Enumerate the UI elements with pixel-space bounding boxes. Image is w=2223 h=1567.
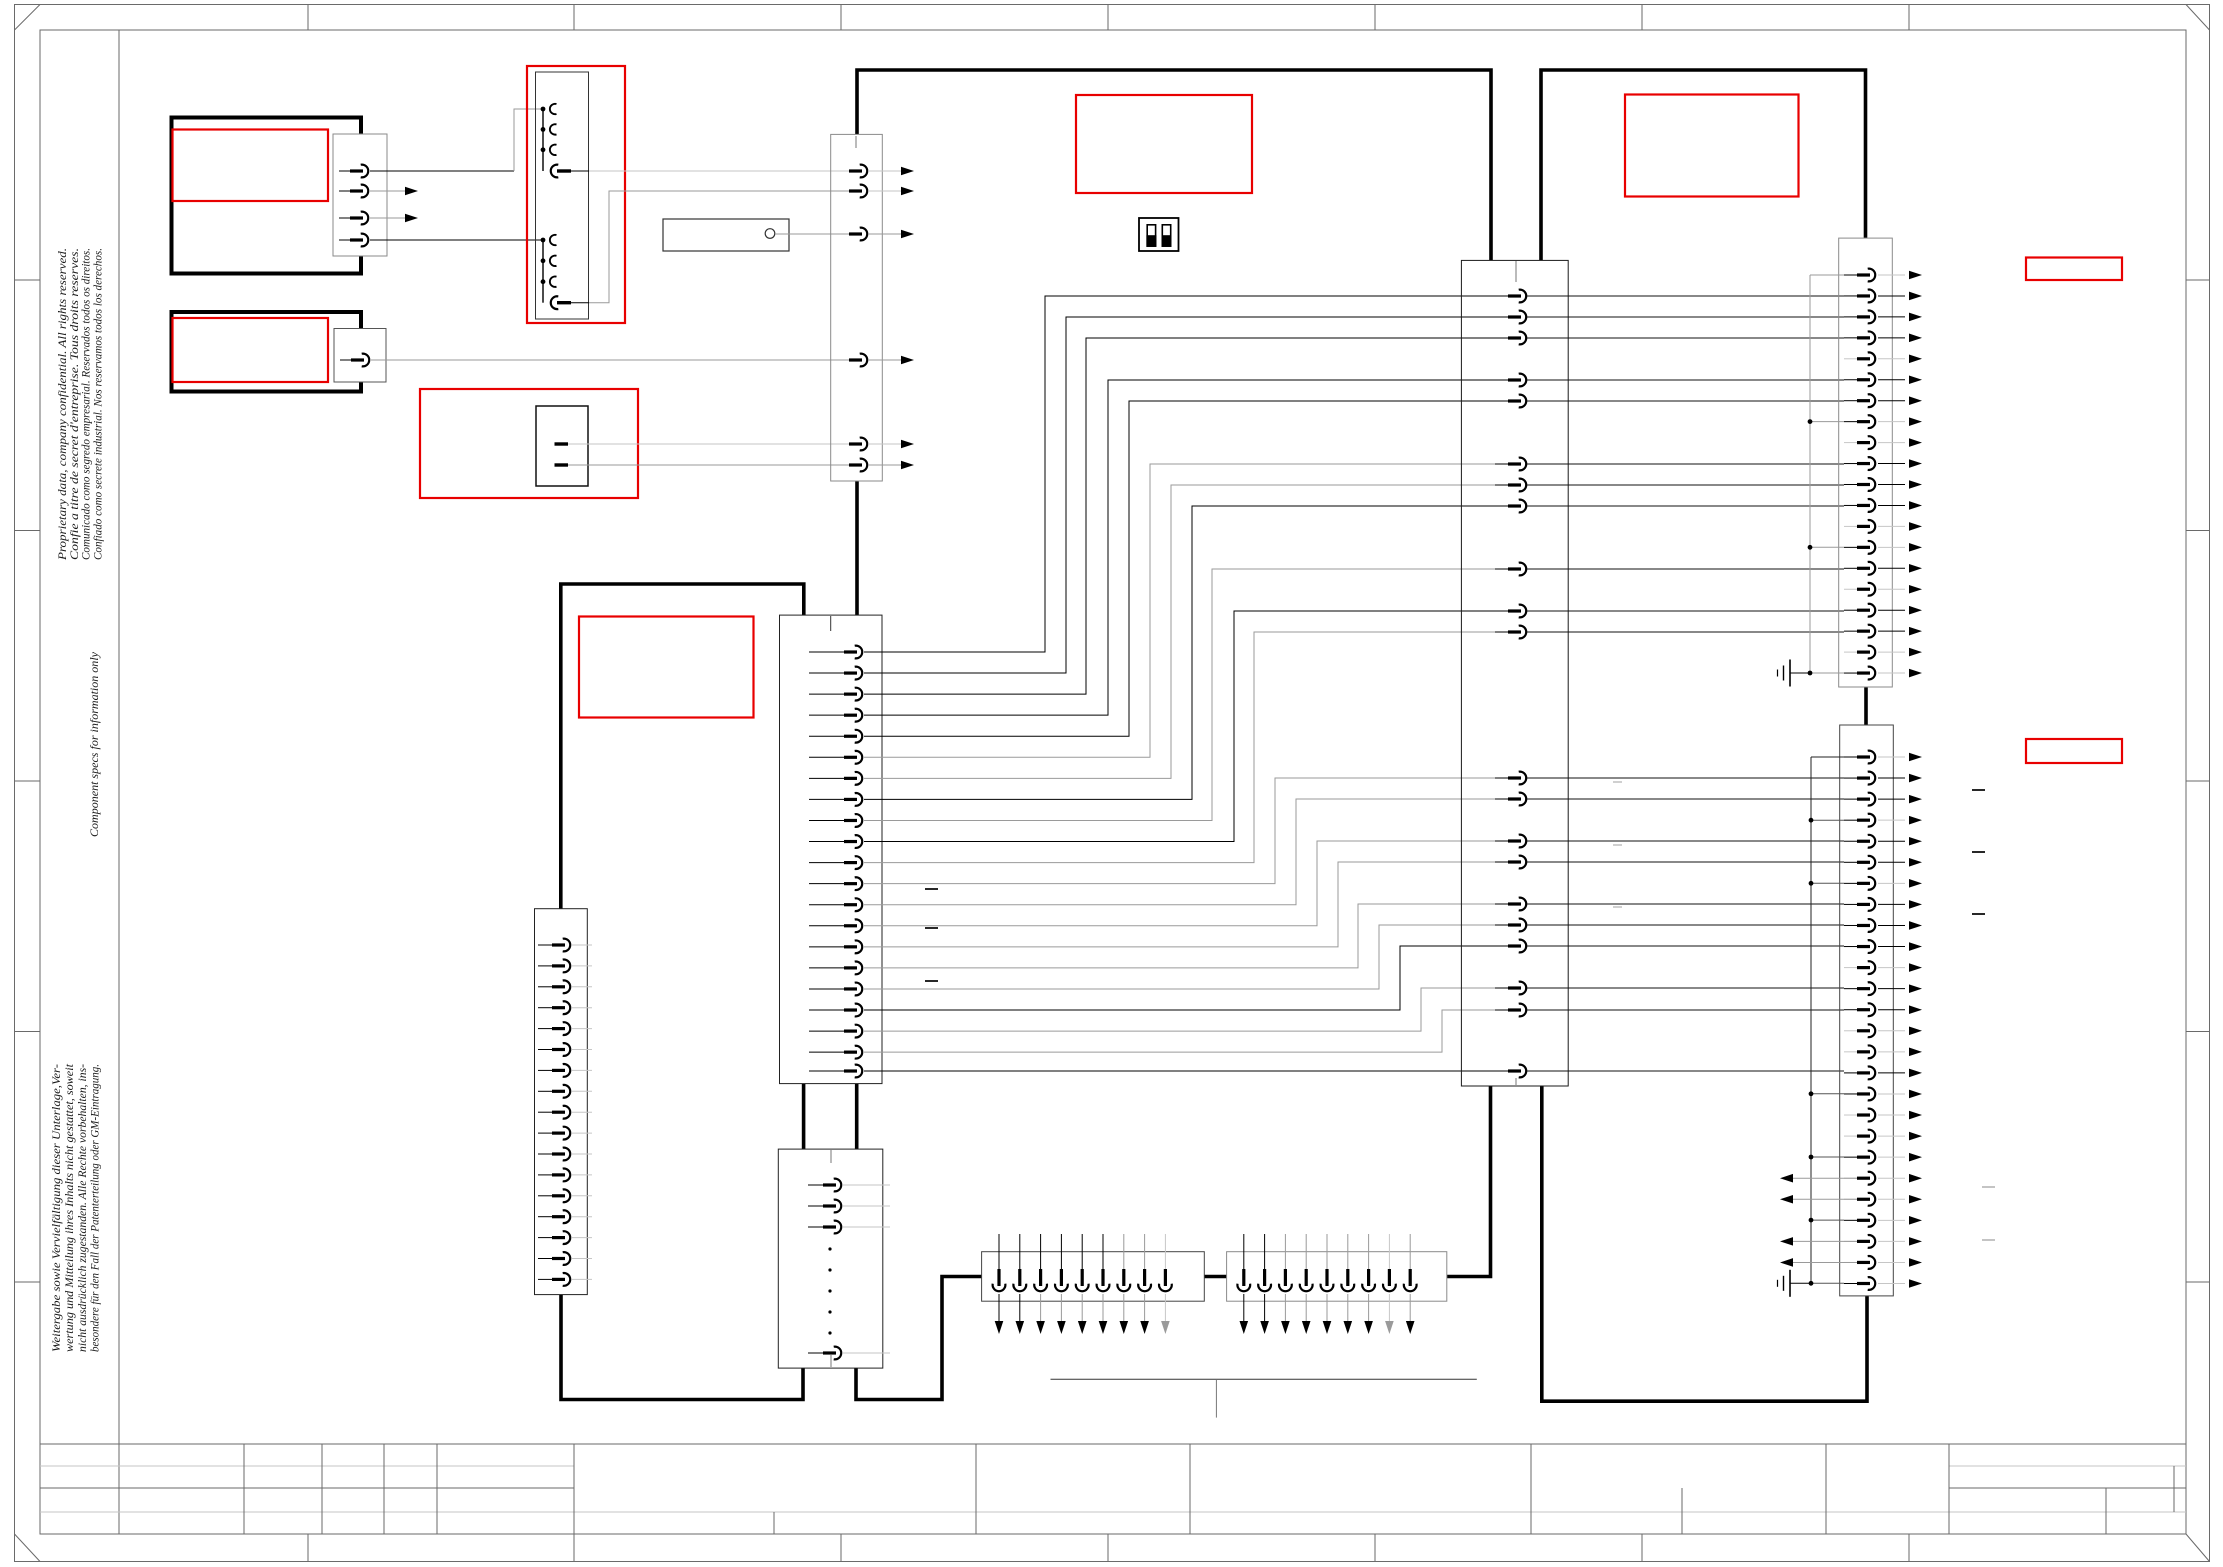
- arrow X7:6: [1909, 858, 1922, 867]
- wire X3:6 to X6: [1527, 463, 1844, 465]
- pin X3:5: [1495, 400, 1508, 402]
- pin X5:n: [808, 1352, 823, 1354]
- label box E1: [173, 130, 329, 202]
- wire E1:1 to fuse F1 input: [370, 170, 514, 172]
- label box harness H2 (right): [1625, 95, 1799, 197]
- connector X5 ellipsis dots: [828, 1247, 831, 1250]
- pin X6:9: [1844, 442, 1857, 444]
- arrow X7:26: [1909, 1279, 1922, 1288]
- wire X7:17 out: [1878, 1093, 1905, 1095]
- wire X3:1 to X6: [1527, 295, 1844, 297]
- fuse F1 contact chain: [542, 109, 544, 171]
- arrow X9:1: [1240, 1321, 1249, 1334]
- wire X6:11 out: [1878, 484, 1905, 486]
- label box harness H1 (center): [1076, 95, 1252, 193]
- svg-text:Weitergabe sowie Vervielfält: Weitergabe sowie Vervielfältigung dieser…: [51, 1064, 63, 1352]
- pin X7:7: [1844, 882, 1857, 884]
- pin X1:5: [836, 443, 849, 445]
- arrow X7:3: [1909, 795, 1922, 804]
- pin X6:14: [1844, 546, 1857, 548]
- arrow X6:3: [1909, 313, 1922, 322]
- pin X4:12: [538, 1174, 552, 1176]
- pin X4:11: [538, 1153, 552, 1155]
- wire X3:15 to X7: [1527, 861, 1844, 863]
- wire X3:5 to X6: [1527, 400, 1844, 402]
- title block: [40, 1443, 2186, 1445]
- fuse F2 output contact: [551, 296, 559, 309]
- arrow X7:13: [1909, 1005, 1922, 1014]
- pin X4:6: [538, 1049, 552, 1051]
- pin X6:20: [1844, 672, 1857, 674]
- pin X3:16: [1495, 903, 1508, 905]
- wire X7:22 feed-back: [1793, 1198, 1857, 1200]
- wire X2:17 to X3:17: [864, 925, 1508, 989]
- wire harness bundle: connector X1 bottom to connector X2 top: [855, 481, 859, 615]
- pin X2:3: [809, 693, 844, 695]
- arrow X6:4: [1909, 334, 1922, 343]
- pin X3:12: [1495, 777, 1508, 779]
- pin X9:9: [1409, 1234, 1411, 1269]
- pin X8:9: [1164, 1234, 1166, 1269]
- pin X2:7: [809, 777, 844, 779]
- wire fuse F1 to connector X1 pin 1: [589, 170, 836, 172]
- DIP switch block S2: [1139, 218, 1179, 251]
- wire X2:5 to X3:5: [864, 401, 1508, 736]
- wire X6:5 out: [1878, 358, 1905, 360]
- arrow E1:2: [405, 187, 418, 196]
- pin X3:7: [1495, 484, 1508, 486]
- wire X3:20 to X7: [1527, 1009, 1844, 1011]
- arrow X7:25 left: [1780, 1258, 1793, 1267]
- connector X5 index tick bottom: [830, 1355, 832, 1367]
- label box W1 (right margin): [2026, 258, 2122, 281]
- pin X3:17: [1495, 924, 1508, 926]
- arrow X9:6: [1344, 1321, 1353, 1334]
- wire X6:17 out: [1878, 609, 1905, 611]
- svg-text:besondere für den Fall der Pat: besondere für den Fall der Patenterteilu…: [90, 1064, 102, 1352]
- frame reference ticks top edge: [307, 5, 309, 31]
- arrow X7:16: [1909, 1069, 1922, 1078]
- arrow X7:21 left: [1780, 1174, 1793, 1183]
- wire harness bundle: connector X4 bottom loop to connector X5 bottom: [561, 1295, 803, 1400]
- wire X7:2 out: [1878, 777, 1905, 779]
- left notice margin divider: [118, 30, 120, 1534]
- ground G2 at connector X7: [1789, 1270, 1791, 1297]
- wire E1:1 riser to fuse F1: [514, 109, 543, 171]
- pin X2:17: [809, 988, 844, 990]
- component box E1 (sensor unit): [172, 118, 362, 274]
- label box E2: [173, 318, 329, 382]
- pin X4:2: [538, 965, 552, 967]
- arrow X7:23: [1909, 1216, 1922, 1225]
- faded wire label dashes (between X3 and X7): [1613, 781, 1622, 783]
- arrow X8:6: [1099, 1321, 1108, 1334]
- arrow X7:20: [1909, 1153, 1922, 1162]
- arrow X8:2: [1016, 1321, 1025, 1334]
- arrow X6:6: [1909, 375, 1922, 384]
- wire X6:4 out: [1878, 337, 1905, 339]
- wire X3:14 to X7: [1527, 840, 1844, 842]
- pin X9:3: [1284, 1234, 1286, 1269]
- pin X6:6: [1844, 379, 1857, 381]
- arrow X9:9: [1406, 1321, 1415, 1334]
- wire X3:11 to X6: [1527, 631, 1844, 633]
- switch S1 body: [536, 406, 588, 486]
- wire X1:6 out: [868, 464, 901, 466]
- arrow X7:4: [1909, 816, 1922, 825]
- pin X1:1: [836, 170, 849, 172]
- pin X4:9: [538, 1111, 552, 1113]
- wire X6:16 out: [1878, 588, 1905, 590]
- switch S1 contact 2: [555, 463, 569, 466]
- arrow X7:12: [1909, 984, 1922, 993]
- pin X9:4: [1305, 1234, 1307, 1269]
- connector X5 index tick top: [830, 1150, 832, 1163]
- wire harness bundle: connector X2 bottom left to connector X5 top: [802, 1084, 806, 1150]
- pin X7:8: [1844, 903, 1857, 905]
- pin X2:13: [809, 904, 844, 906]
- pin X7:14: [1844, 1030, 1857, 1032]
- wire harness bundle: connector X8 right to connector X9 left: [1204, 1275, 1226, 1279]
- pin X9:7: [1368, 1234, 1370, 1269]
- wire X2:21 to X3:21: [864, 1070, 1508, 1072]
- pin X4:3: [538, 986, 552, 988]
- arrow X6:19: [1909, 648, 1922, 657]
- pin X4:15: [538, 1237, 552, 1239]
- pin X7:3: [1844, 798, 1857, 800]
- wire X1:4 out: [868, 359, 901, 361]
- pin X2:20: [809, 1051, 844, 1053]
- wire X7:11 out: [1878, 967, 1905, 969]
- connector X8 strip: [982, 1252, 1205, 1302]
- wire X7:10 out: [1878, 946, 1905, 948]
- wire X2:15 to X3:15: [864, 862, 1508, 947]
- pin X6:1: [1844, 274, 1857, 276]
- connector X6 strip: [1839, 238, 1893, 687]
- pin E1:3: [339, 217, 350, 219]
- pin X3:13: [1495, 798, 1508, 800]
- pin X6:7: [1844, 400, 1857, 402]
- pin X4:14: [538, 1216, 552, 1218]
- pin X3:2: [1495, 316, 1508, 318]
- svg-text:Confiado como secrete industri: Confiado como secrete industrial. Nos re…: [92, 248, 104, 560]
- pin X2:8: [809, 798, 844, 800]
- pin X8:5: [1081, 1234, 1083, 1269]
- wire harness bundle: generator box top edge to connector X1 top: [857, 70, 1491, 260]
- wire X7:15 out: [1878, 1051, 1905, 1053]
- arrow X7:24 left: [1780, 1237, 1793, 1246]
- pin X7:13: [1844, 1009, 1857, 1011]
- connector X3 index tick bottom: [1515, 1078, 1517, 1085]
- wire X3:18 to X7: [1527, 945, 1844, 947]
- pin X2:1: [809, 651, 844, 653]
- ground bus wire at X6: [1809, 275, 1811, 673]
- arrow X6:10: [1909, 459, 1922, 468]
- wire X6:2 out: [1878, 295, 1905, 297]
- wire X2:4 to X3:4: [864, 380, 1508, 715]
- pin X7:23: [1844, 1219, 1857, 1221]
- pin X6:16: [1844, 588, 1857, 590]
- arrow X6:16: [1909, 585, 1922, 594]
- wire X1:5 out: [868, 443, 901, 445]
- wire X7:18 out: [1878, 1114, 1905, 1116]
- pin X5:2: [808, 1205, 823, 1207]
- arrow X1:1: [901, 167, 914, 176]
- frame reference ticks right edge: [2186, 279, 2210, 281]
- wire X2:3 to X3:3: [864, 338, 1508, 694]
- pin X7:21: [1844, 1177, 1857, 1179]
- wire X7:8 out: [1878, 903, 1905, 905]
- frame corner diagonal top-right: [2186, 5, 2210, 31]
- wire X6:10 out: [1878, 463, 1905, 465]
- fuse F2 contact chain: [542, 240, 544, 303]
- arrow X7:19: [1909, 1132, 1922, 1141]
- pin X7:15: [1844, 1051, 1857, 1053]
- arrow X7:22 left: [1780, 1195, 1793, 1204]
- wire X3:19 to X7: [1527, 987, 1844, 989]
- wire X2:8 to X3:8: [864, 506, 1508, 799]
- arrow X9:2: [1260, 1321, 1269, 1334]
- arrow X6:2: [1909, 292, 1922, 301]
- label box control unit A1: [579, 617, 754, 718]
- wire X1:2 out: [868, 190, 901, 192]
- wire X2:20 to X3:20: [864, 1010, 1508, 1052]
- pin X7:16: [1844, 1072, 1857, 1074]
- pin X7:17: [1844, 1093, 1857, 1095]
- pin X7:25: [1844, 1261, 1857, 1263]
- wire label dash marks (right group): [1972, 789, 1985, 791]
- arrow X7:25: [1909, 1258, 1922, 1267]
- pin E1:1: [339, 170, 350, 172]
- arrow X6:15: [1909, 564, 1922, 573]
- wire X6:6 out: [1878, 379, 1905, 381]
- wire X6:19 out: [1878, 651, 1905, 653]
- pin X6:8: [1844, 421, 1857, 423]
- wire X2:10 to X3:10: [864, 611, 1508, 842]
- pin X4:10: [538, 1132, 552, 1134]
- arrow X7:7: [1909, 879, 1922, 888]
- pin X2:21: [809, 1070, 844, 1072]
- pin X9:2: [1264, 1234, 1266, 1269]
- arrow X7:2: [1909, 774, 1922, 783]
- pin X3:9: [1495, 568, 1508, 570]
- arrow X6:11: [1909, 480, 1922, 489]
- pin X3:11: [1495, 631, 1508, 633]
- pin X8:7: [1123, 1234, 1125, 1269]
- pin X3:20: [1495, 1009, 1508, 1011]
- pin X2:4: [809, 714, 844, 716]
- pin X4:16: [538, 1258, 552, 1260]
- wire X2:7 to X3:7: [864, 485, 1508, 778]
- pin X4:1: [538, 944, 552, 946]
- pin X2:16: [809, 967, 844, 969]
- pin X4:17: [538, 1278, 552, 1280]
- pin X1:2: [836, 190, 849, 192]
- wire X2:19 to X3:19: [864, 988, 1508, 1031]
- pin X8:3: [1040, 1234, 1042, 1269]
- pin X3:3: [1495, 337, 1508, 339]
- connector X5 strip: [778, 1149, 883, 1368]
- connector X2 strip: [780, 615, 883, 1084]
- pin X7:18: [1844, 1114, 1857, 1116]
- arrow X7:1: [1909, 753, 1922, 762]
- pin X6:11: [1844, 484, 1857, 486]
- arrow X7:17: [1909, 1090, 1922, 1099]
- pin X2:15: [809, 946, 844, 948]
- pin E2:1: [340, 359, 351, 361]
- wire S1:1 to connector X1 pin 5: [568, 443, 836, 445]
- arrow X6:7: [1909, 396, 1922, 405]
- pin X6:12: [1844, 504, 1857, 506]
- pin X1:3: [836, 233, 849, 235]
- pin X2:6: [809, 756, 844, 758]
- pin X6:4: [1844, 337, 1857, 339]
- wire X7:7 out: [1878, 882, 1905, 884]
- pin X7:24: [1844, 1240, 1857, 1242]
- arrow X6:20: [1909, 669, 1922, 678]
- wire X3:9 to X6: [1527, 568, 1844, 570]
- svg-text:nicht ausdrücklich zugestanden: nicht ausdrücklich zugestanden. Alle Rec…: [77, 1064, 89, 1352]
- wire X2:1 to X3:1: [864, 296, 1508, 652]
- pin X2:10: [809, 841, 844, 843]
- pin X8:8: [1144, 1234, 1146, 1269]
- wire X2:11 to X3:11: [864, 632, 1508, 863]
- arrow X7:15: [1909, 1048, 1922, 1057]
- pin E1:2: [339, 190, 350, 192]
- wire X3:12 to X7: [1527, 777, 1844, 779]
- wire X7:26 out: [1878, 1283, 1905, 1285]
- pin X7:9: [1844, 924, 1857, 926]
- arrow X8:5: [1078, 1321, 1087, 1334]
- frame corner diagonal top-left: [15, 5, 41, 31]
- fuse box inner body: [536, 72, 589, 319]
- wire X6:13 out: [1878, 525, 1905, 527]
- pin X3:15: [1495, 861, 1508, 863]
- arrow X6:14: [1909, 543, 1922, 552]
- wire X1:1 out: [868, 170, 901, 172]
- arrow X1:3: [901, 230, 914, 239]
- fuse F1 output contact: [551, 165, 559, 178]
- connector X2 index tick: [830, 616, 832, 631]
- pin X3:19: [1495, 987, 1508, 989]
- pin X8:1: [998, 1234, 1000, 1269]
- wire X2:14 to X3:14: [864, 841, 1508, 926]
- pin X7:1: [1844, 756, 1857, 758]
- frame reference ticks bottom edge: [307, 1534, 309, 1562]
- arrow X6:1: [1909, 271, 1922, 280]
- wire X6:3 out: [1878, 316, 1905, 318]
- pin X4:7: [538, 1069, 552, 1071]
- pin X7:22: [1844, 1198, 1857, 1200]
- wire X6:14 out: [1878, 546, 1905, 548]
- wire X7:20 out: [1878, 1156, 1905, 1158]
- pin X6:19: [1844, 651, 1857, 653]
- wire harness bundle: connector X5 bottom to connector X8 left: [856, 1277, 982, 1400]
- arrow X7:22: [1909, 1195, 1922, 1204]
- pin X6:5: [1844, 358, 1857, 360]
- arrow X7:10: [1909, 942, 1922, 951]
- arrow X6:8: [1909, 417, 1922, 426]
- wire harness bundle: connector X2 bottom right to connector X5 top: [855, 1084, 859, 1150]
- wire X6:9 out: [1878, 442, 1905, 444]
- wire relay K1 to connector X1 pin 3: [775, 233, 836, 235]
- pin X4:13: [538, 1195, 552, 1197]
- pin X3:4: [1495, 379, 1508, 381]
- wire X7:1 out: [1878, 756, 1905, 758]
- wire X6:15 out: [1878, 567, 1905, 569]
- pin X6:10: [1844, 463, 1857, 465]
- pin X7:10: [1844, 946, 1857, 948]
- arrow X8:4: [1057, 1321, 1066, 1334]
- arrow X7:5: [1909, 837, 1922, 846]
- arrow X8:7: [1120, 1321, 1129, 1334]
- arrow X6:5: [1909, 355, 1922, 364]
- connector X1 index tick: [855, 136, 857, 148]
- pin X7:20: [1844, 1156, 1857, 1158]
- arrow X6:9: [1909, 438, 1922, 447]
- wire X2:18 to X3:18: [864, 946, 1508, 1010]
- connector X9 strip: [1227, 1252, 1447, 1302]
- frame corner diagonal bottom-left: [15, 1534, 41, 1562]
- arrow X7:14: [1909, 1026, 1922, 1035]
- wire X6:18 out: [1878, 630, 1905, 632]
- arrow X7:18: [1909, 1111, 1922, 1120]
- relay K1 coil circle: [765, 229, 775, 239]
- pin X8:6: [1102, 1234, 1104, 1269]
- wire X2:9 to X3:9: [864, 569, 1508, 820]
- pin X7:2: [1844, 777, 1857, 779]
- arrow E1:3: [405, 214, 418, 223]
- arrow X7:24: [1909, 1237, 1922, 1246]
- wire harness bundle: connector X3 bottom to connector X7 bottom: [1542, 1086, 1867, 1401]
- wire X7:23 out: [1878, 1219, 1905, 1221]
- wire X7:5 out: [1878, 840, 1905, 842]
- pin X5:1: [808, 1184, 823, 1186]
- arrow X9:3: [1281, 1321, 1290, 1334]
- wire X2:13 to X3:13: [864, 799, 1508, 905]
- arrow X9:8: [1385, 1321, 1394, 1334]
- wire X7:16 out: [1878, 1072, 1905, 1074]
- wire label dash marks (left group): [925, 888, 938, 890]
- pin X9:8: [1388, 1234, 1390, 1269]
- pin X2:18: [809, 1009, 844, 1011]
- wire X6:12 out: [1878, 504, 1905, 506]
- wire harness bundle: control unit top edge to connector X2: [561, 584, 804, 909]
- label box W2 (right margin): [2026, 739, 2122, 763]
- wire X2:6 to X3:6: [864, 464, 1508, 757]
- arrow X7:11: [1909, 963, 1922, 972]
- wire X6:1 out: [1878, 274, 1905, 276]
- wire X2:2 to X3:2: [864, 317, 1508, 673]
- wire X7:21 out: [1878, 1177, 1905, 1179]
- wire X3:17 to X7: [1527, 924, 1844, 926]
- pin X8:4: [1060, 1234, 1062, 1269]
- pin X2:11: [809, 862, 844, 864]
- pin E1:4: [339, 239, 350, 241]
- connector X3 strip: [1461, 260, 1568, 1086]
- pin X7:12: [1844, 988, 1857, 990]
- wire X6:7 out: [1878, 400, 1905, 402]
- arrow X7:9: [1909, 921, 1922, 930]
- pin X3:21: [1495, 1070, 1508, 1072]
- arrow X8:8: [1140, 1321, 1149, 1334]
- wire X7:19 out: [1878, 1135, 1905, 1137]
- connector X3 index tick top: [1515, 261, 1517, 282]
- svg-text:wertung und Mitteilung ihres I: wertung und Mitteilung ihres Inhalts nic…: [64, 1063, 76, 1352]
- arrow X6:18: [1909, 627, 1922, 636]
- pin X2:2: [809, 672, 844, 674]
- arrow X8:3: [1036, 1321, 1045, 1334]
